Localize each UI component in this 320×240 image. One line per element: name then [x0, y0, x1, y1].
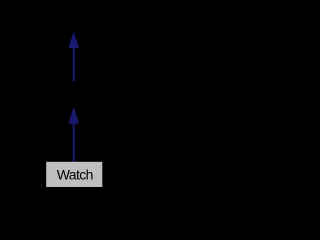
svg-text:Watch: Watch [57, 167, 93, 183]
edge arrow 1 (middle node to top node) [68, 32, 79, 82]
edge arrow 2 (Watch node to middle node) [68, 107, 79, 162]
node Watch [46, 162, 102, 187]
